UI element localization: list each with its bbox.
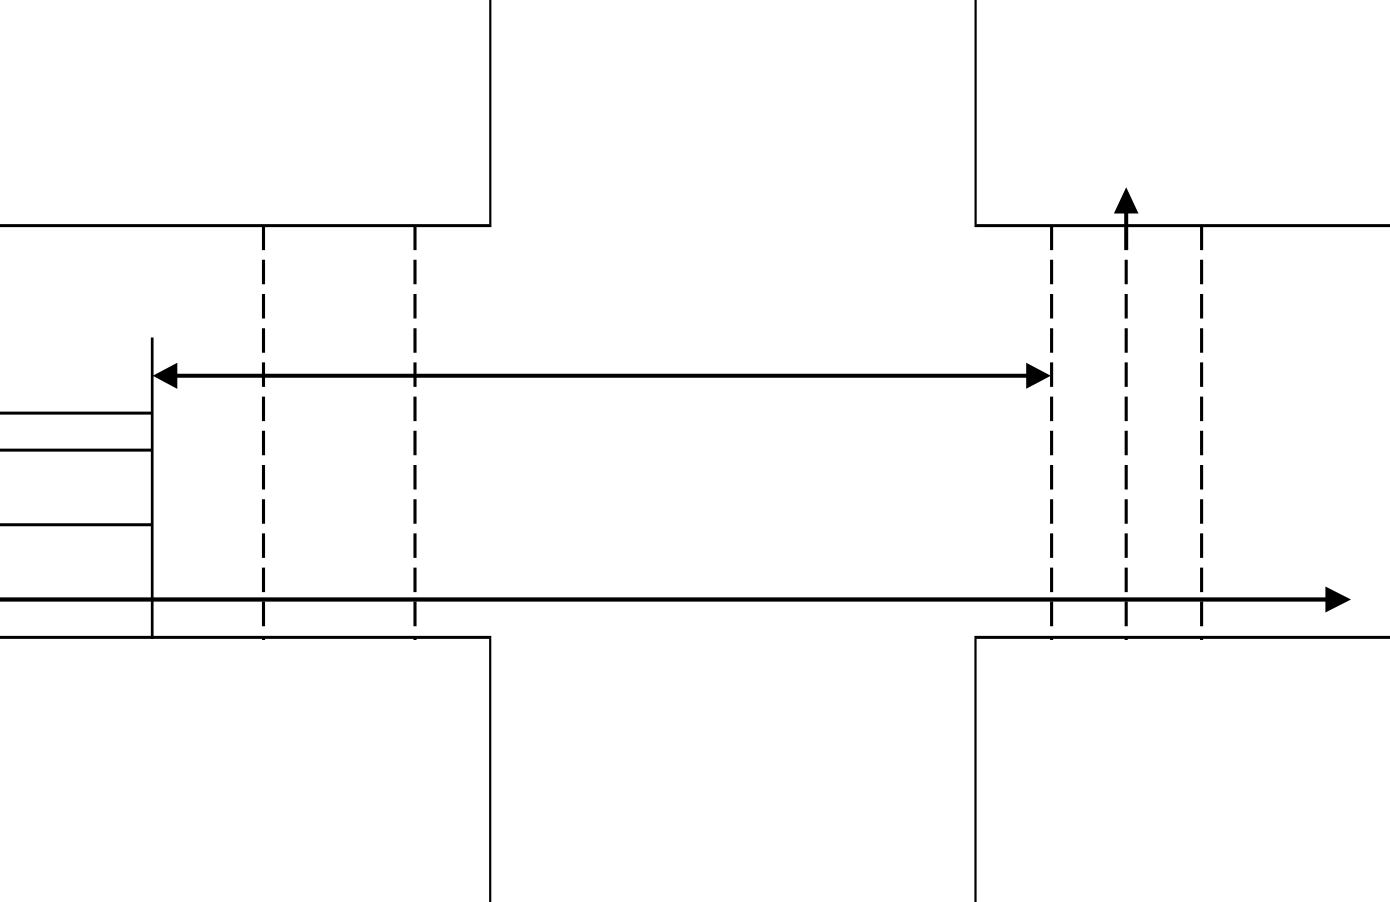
road corner SE (curb lines): [974, 637, 1390, 902]
dashed line 4 (right intersection, middle): [1125, 226, 1128, 640]
up arrow head: [1114, 187, 1139, 213]
lane line 1: [0, 412, 152, 415]
road corner NE (curb lines): [975, 0, 1390, 226]
double arrow right head: [1026, 363, 1051, 389]
long through-movement arrow shaft: [0, 597, 1327, 601]
road corner SW (curb lines): [0, 637, 491, 902]
dashed line 2 (left intersection, east): [413, 226, 416, 640]
stop line (vertical): [151, 338, 154, 640]
dashed line 5 (right intersection, east): [1200, 226, 1203, 640]
up arrow tail: [1124, 213, 1128, 250]
double-headed distance arrow shaft: [177, 374, 1028, 378]
lane line 3: [0, 523, 152, 526]
road corner NW (curb lines): [0, 0, 491, 226]
lane line 2: [0, 449, 152, 452]
dashed line 1 (left intersection, west): [262, 226, 265, 640]
double arrow left head: [153, 363, 178, 389]
dashed line 3 (right intersection, west): [1050, 226, 1053, 640]
long arrow head: [1325, 587, 1351, 613]
